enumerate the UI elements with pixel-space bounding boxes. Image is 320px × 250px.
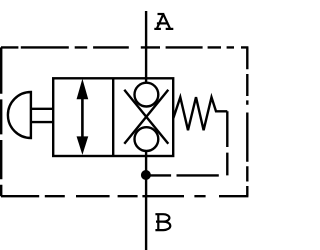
label B bbox=[155, 214, 170, 230]
port A line bbox=[145, 11, 147, 83]
label A bbox=[154, 14, 173, 29]
dashed enclosure border top bbox=[1, 46, 248, 48]
poppet ball bottom circle bbox=[135, 127, 159, 151]
poppet seat X diagonal 1 bbox=[124, 90, 168, 144]
spring bbox=[173, 97, 227, 130]
poppet ball top circle bbox=[135, 83, 159, 107]
dashed enclosure border right bbox=[246, 47, 248, 196]
valve body centre divider bbox=[112, 78, 114, 156]
valve body outer rectangle bbox=[53, 78, 173, 156]
double arrow shaft (left square) bbox=[81, 99, 84, 138]
junction node dot bbox=[141, 170, 151, 180]
actuator stem top line bbox=[31, 108, 53, 110]
dashed enclosure border left bbox=[0, 47, 2, 196]
poppet seat X diagonal 2 bbox=[124, 90, 168, 144]
port B line bbox=[145, 151, 147, 250]
actuator stem bottom line bbox=[31, 121, 53, 123]
pilot line vertical dashed bbox=[226, 111, 228, 175]
push-button actuator semicircle bbox=[8, 92, 31, 138]
pilot line horizontal dashed bbox=[149, 174, 228, 176]
double arrow top head bbox=[77, 79, 89, 99]
double arrow bottom head bbox=[77, 136, 89, 155]
dashed enclosure border bottom bbox=[1, 195, 248, 197]
